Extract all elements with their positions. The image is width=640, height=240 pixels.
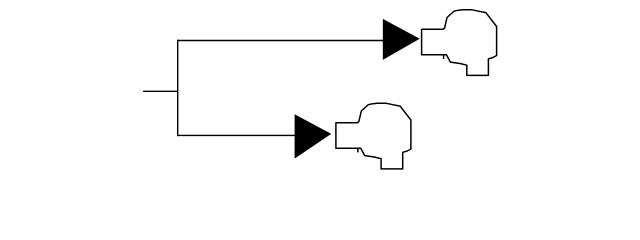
amplifier U1	[383, 19, 420, 60]
amplifier U2	[295, 114, 332, 158]
speaker LS2	[336, 103, 411, 169]
wire bottom branch	[177, 134, 295, 136]
wire top branch	[177, 40, 384, 42]
node A splitter trunk	[177, 40, 179, 136]
speaker LS1	[422, 10, 497, 76]
wire input stub	[143, 90, 178, 92]
